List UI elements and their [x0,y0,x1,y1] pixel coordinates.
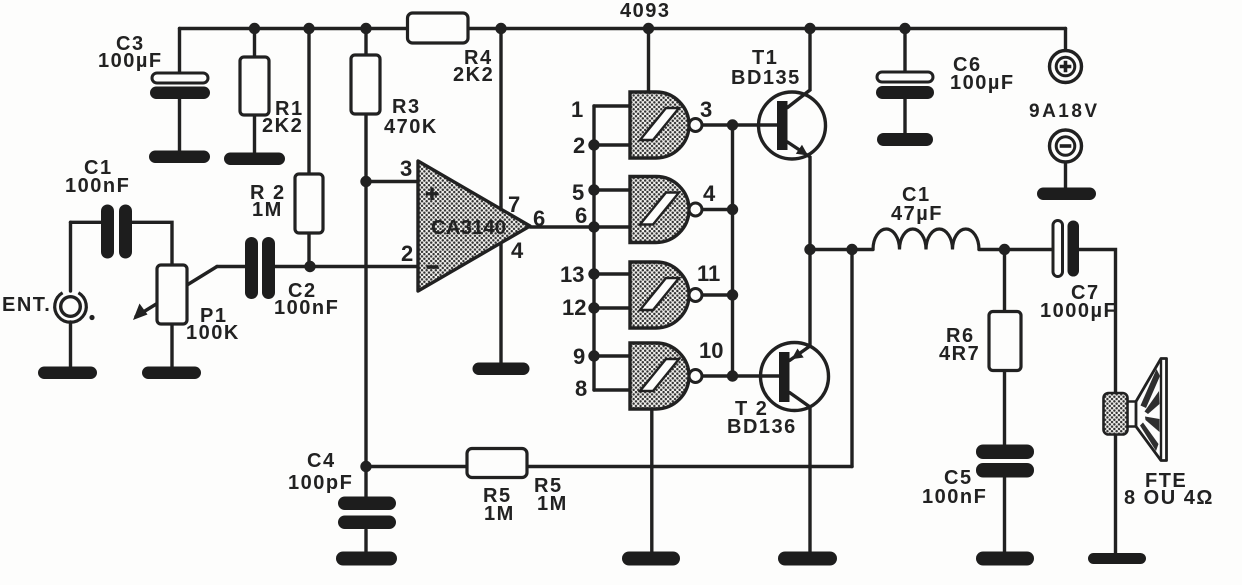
wire R1 top [253,29,256,58]
ground under gate4 [622,552,680,566]
wire gate input bus [592,106,595,390]
wire minus terminal to ground [1064,161,1067,188]
wire gate4 pin7 to ground [650,408,653,552]
wire C3 bottom to ground [178,98,181,151]
node rail-R3 [360,23,371,34]
wire coil to C7 [979,248,1054,251]
node pin2-R2 [304,261,315,272]
NAND gate U2c [630,262,702,328]
wire gate4 pin8 stub [594,388,630,391]
node feedback [846,244,857,255]
svg-text:100pF: 100pF [288,472,353,494]
svg-text:13: 13 [560,262,584,287]
wire R2 bottom [307,233,310,267]
svg-text:1000µF: 1000µF [1040,300,1117,322]
wire gate output bus [731,125,734,376]
wire gate1 pin2 stub [594,143,630,146]
capacitor C6 [876,72,934,99]
terminal minus [1050,130,1082,162]
wire T2 collector down to ground [790,393,811,553]
wire C4 down [364,467,367,498]
svg-text:C4: C4 [307,450,336,472]
ground under C3 [149,151,210,164]
wire plus terminal drop [1064,29,1067,53]
wire T1 base [733,123,778,126]
terminal plus [1050,51,1082,83]
wire op-amp pin3 [366,180,418,183]
svg-text:3: 3 [400,156,412,181]
capacitor C7 [1053,221,1079,277]
svg-text:47µF: 47µF [891,203,943,225]
wire feedback horizontal to R5 [527,465,852,468]
wire emitter junction to coil [810,248,873,251]
wire ENT jack to ground [69,322,72,367]
wire T1 emitter down [788,142,811,250]
potentiometer P1 [133,265,187,324]
NAND gate U2a [630,92,702,158]
svg-text:100µF: 100µF [98,50,163,72]
node outbus gate3 [727,289,738,300]
svg-text:2K2: 2K2 [262,115,303,137]
node pin3-R3 [360,176,371,187]
speaker FTE [1104,359,1167,461]
wire R6 drop [1003,250,1006,313]
svg-text:9: 9 [573,344,585,369]
resistor R5 [467,449,527,478]
wire P1 to C2 [217,265,246,268]
svg-text:470K: 470K [384,116,438,138]
svg-text:100K: 100K [186,322,240,344]
wire P1 bottom to ground [170,324,173,367]
wire R1 bottom [253,115,256,154]
node emitter T1 [804,244,815,255]
node bus pin13 [588,268,599,279]
svg-text:4: 4 [511,238,524,263]
ground under ENT [38,367,97,380]
node bus pin2 [588,139,599,150]
wire C5 to ground [1003,478,1006,553]
svg-text:3: 3 [700,97,712,122]
ground under speaker [1088,553,1146,564]
svg-text:100µF: 100µF [950,72,1015,94]
wire R3 top [364,29,367,56]
svg-text:BD135: BD135 [731,67,801,89]
resistor R4 [408,13,469,43]
svg-text:12: 12 [562,295,586,320]
svg-text:2K2: 2K2 [453,64,494,86]
svg-text:100nF: 100nF [65,175,130,197]
svg-text:2: 2 [401,241,413,266]
svg-text:BD136: BD136 [727,416,797,438]
node rail-R1 [249,23,260,34]
inductor L1 [873,229,979,250]
capacitor C3 [150,73,210,99]
wire gate2 pin5 stub [594,188,630,191]
wire C6 top drop [903,29,906,74]
wire feedback down from emitter node [850,250,853,467]
capacitor C4 [338,497,396,530]
svg-text:1M: 1M [252,199,283,221]
node rail-4093 [643,23,654,34]
ground under P1 [142,367,201,380]
capacitor C1 [101,205,132,259]
wire C7 to speaker [1079,250,1116,555]
wire gate4 output [702,374,733,377]
svg-text:4R7: 4R7 [939,343,980,365]
wire gate1 output [702,123,733,126]
op-amp U1 CA3140 [418,161,530,291]
wire C2 to op-amp pin2 [274,265,419,268]
svg-text:1M: 1M [484,503,515,525]
node bus pin12 [588,302,599,313]
svg-text:4: 4 [703,181,716,206]
svg-text:T1: T1 [752,47,778,69]
svg-text:8 OU 4Ω: 8 OU 4Ω [1124,487,1214,509]
wire C3 top drop [178,29,181,74]
svg-text:6: 6 [533,206,545,231]
svg-text:2: 2 [573,133,585,158]
wire ENT jack up [69,222,72,291]
transistor T2 BD136 [761,343,829,411]
ground under C5 [976,552,1034,566]
svg-text:100nF: 100nF [922,486,987,508]
node C4 junction [360,461,371,472]
node rail-R2 [303,23,314,34]
ground under R1 [224,153,285,166]
wire top rail [180,27,1066,30]
node bus pin5 [588,184,599,195]
transistor T1 BD135 [759,92,826,159]
svg-text:6: 6 [575,203,587,228]
resistor R6 [989,312,1021,371]
wire 4093 supply drop [647,29,650,94]
wire C6 bottom to ground [903,99,906,133]
resistor R3 [351,55,380,114]
NAND gate U2d [630,343,702,409]
wire C1 left [71,221,103,224]
wire C1 right to P1 [131,222,172,265]
ground under C6 [877,133,933,146]
wire R2 top [307,29,310,175]
svg-text:4093: 4093 [620,0,671,22]
wire P1 wiper diagonal [136,267,217,317]
wire gate4 pin9 stub [594,354,630,357]
node rail-C6 [899,23,910,34]
node rail-pin7 [495,23,506,34]
wire gate3 output [702,293,733,296]
node R6 tap [999,244,1010,255]
wire op-amp pin4 to ground [499,244,502,363]
wire R3 bottom feedback column [364,114,367,467]
node outbus gate4 [727,370,738,381]
wire T2 base [733,374,780,377]
svg-text:R3: R3 [392,96,421,118]
resistor R2 [295,174,323,233]
svg-text:11: 11 [697,261,720,286]
NAND gate U2b [630,177,702,243]
wire gate1 pin1 stub [594,104,630,107]
svg-text:1M: 1M [537,493,568,515]
svg-text:100nF: 100nF [274,297,339,319]
wire gate3 pin13 stub [594,272,630,275]
svg-text:5: 5 [572,180,584,205]
svg-text:ENT.: ENT. [2,294,51,316]
capacitor C2 [245,237,275,299]
ground under T2 [778,552,837,566]
node rail-T1 [804,23,815,34]
wire R6 to C5 [1003,371,1006,446]
wire C4 junction to R5 [366,465,467,468]
wire gate2 output [702,208,733,211]
node bus pin9 [588,350,599,361]
svg-text:7: 7 [508,192,520,217]
svg-text:1: 1 [571,97,583,122]
svg-text:8: 8 [575,376,587,401]
wire gate3 pin12 stub [594,306,630,309]
wire C4 bottom to ground [364,530,367,552]
capacitor C5 [976,445,1034,478]
ground under op-amp pin4 [473,363,530,376]
wire T2 emitter up [790,250,811,361]
node outbus gate1 [727,119,738,130]
node bus pin6 [588,221,599,232]
node outbus gate2 [727,204,738,215]
ground under C4 [336,552,397,566]
wire T1 collector riser [788,29,811,108]
wire op-amp pin7 drop [499,29,502,211]
resistor R1 [240,57,269,115]
wire op-amp output to gate2 pin6 [530,225,630,228]
input jack ENT [55,293,95,322]
svg-text:9A18V: 9A18V [1029,101,1100,122]
ground under minus terminal [1037,188,1096,201]
svg-text:10: 10 [699,338,723,363]
